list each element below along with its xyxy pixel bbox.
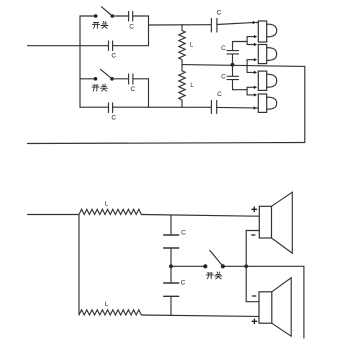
switch S2 contact left [94, 77, 98, 81]
label plus W2 [252, 319, 257, 324]
svg-text:C: C [217, 9, 222, 16]
arrow into tweeter T4 minus [254, 106, 257, 109]
wire left vertical bus of box1+box2 [79, 16, 81, 107]
node junction (bottom section) [169, 264, 173, 268]
wire bottom return (top section) [28, 143, 305, 144]
wire lower long wire right part [217, 106, 254, 109]
node speaker junction [244, 264, 248, 268]
svg-text:L: L [105, 202, 109, 208]
inductor L3 (horizontal coil) [79, 209, 141, 214]
bracket T1-T2 [247, 35, 257, 46]
wire box2 top branch right [133, 78, 149, 80]
capacitor C (box2 top branch) [128, 74, 130, 84]
wire woofer W1 minus [246, 230, 259, 232]
wire cap column lower vertical [232, 65, 234, 76]
wire box2 right vertical [148, 79, 150, 107]
svg-text:C: C [217, 91, 222, 98]
wire box1 bottom branch right part [113, 45, 149, 47]
wire input stub top section [28, 45, 109, 47]
capacitor C (lower shunt, bottom section) [164, 282, 179, 284]
wire shunt column top vertical [170, 215, 172, 235]
wire woofer W2 minus [246, 301, 259, 303]
label 开关 switch S3 [206, 272, 222, 279]
wire junction to switch [171, 265, 205, 267]
label 开关 switch S1 [93, 22, 109, 29]
label plus W1 [252, 207, 257, 212]
wire box1 top branch left [80, 15, 96, 17]
wire switch to speaker junction [223, 265, 246, 267]
capacitor C (upper shunt) [227, 50, 239, 52]
wire vertical between woofer minus terminals [245, 231, 247, 302]
wire between cap and junction [170, 248, 172, 266]
tweeter T3 [258, 71, 276, 90]
wire A right part [217, 23, 253, 25]
capacitor C (box1 bottom branch) [108, 41, 110, 51]
tweeter T1 [258, 21, 276, 42]
woofer W2 [259, 278, 291, 336]
wire input stub bottom section [28, 214, 80, 216]
svg-text:C: C [111, 52, 116, 59]
svg-text:C: C [181, 279, 186, 286]
wire box2 bottom branch long to tweeter T4 [113, 106, 212, 108]
switch S3 blade [210, 250, 223, 266]
wire right vertical (bottom section) [303, 266, 305, 338]
inductor L1 (vertical zigzag) [179, 24, 185, 64]
capacitor C (box1 top branch) [128, 12, 130, 22]
svg-text:L: L [190, 43, 194, 49]
capacitor C (lower shunt) [227, 75, 239, 77]
capacitor C (series, upper wire A) [210, 19, 212, 33]
wire below lower shunt cap [232, 80, 234, 90]
bracket T2-T3 [247, 58, 257, 74]
wire box1 right vertical [148, 16, 150, 46]
svg-text:C: C [181, 229, 186, 236]
svg-text:C: C [129, 23, 134, 30]
switch S1 contact right [111, 14, 115, 18]
capacitor C (upper shunt, bottom section) [164, 234, 179, 236]
switch S2 contact right [110, 77, 114, 81]
label 开关 switch S2 [92, 84, 108, 91]
svg-text:C: C [111, 114, 116, 121]
wire junction to lower cap [170, 266, 172, 283]
wire B middle output [182, 65, 305, 67]
inductor L4 (horizontal coil) [79, 310, 141, 315]
capacitor C (series, lower long wire) [210, 101, 212, 114]
wire A output of box1 left part [149, 24, 212, 26]
bracket T3-T4 [247, 86, 257, 97]
wire link upper cap to bracket1 [233, 41, 248, 43]
tweeter T4 [258, 94, 276, 112]
switch S3 contact right [221, 264, 225, 268]
node junction on wire B [231, 63, 235, 67]
wire link lower cap to bracket3 [233, 89, 248, 91]
switch S3 contact left [203, 264, 207, 268]
capacitor C (box2 bottom branch) [108, 103, 110, 113]
wire box2 top branch middle [112, 78, 129, 80]
arrow into tweeter T1 plus [253, 21, 256, 24]
svg-text:L: L [190, 83, 194, 89]
wire box1 top branch middle [112, 15, 128, 17]
tweeter T2 [258, 45, 276, 64]
switch S2 blade [101, 69, 113, 79]
wire cap column upper vertical [232, 42, 234, 51]
svg-text:C: C [221, 45, 226, 52]
wire below lower cap to bottom wire [170, 296, 172, 315]
wire below upper shunt cap [232, 54, 234, 65]
wire right vertical return (top section) [304, 66, 306, 142]
svg-text:C: C [130, 86, 135, 93]
wire box2 top branch left [80, 78, 96, 80]
wire box1 top branch right [133, 15, 149, 17]
svg-text:C: C [221, 73, 226, 80]
switch S1 contact left [94, 14, 98, 18]
wire box2 bottom branch left [80, 106, 108, 108]
wire left vertical (bottom section) [78, 215, 80, 316]
inductor L2 (vertical zigzag) [179, 65, 185, 108]
label minus W2 [253, 295, 256, 297]
svg-text:L: L [105, 302, 109, 308]
label minus W1 [252, 234, 255, 236]
wire from L3 to woofer W1 plus [141, 215, 259, 217]
wire from L4 to woofer W2 plus [141, 315, 259, 317]
switch S1 blade [102, 7, 113, 16]
woofer W1 [259, 192, 292, 253]
wire speaker junction to right vertical [246, 265, 304, 267]
